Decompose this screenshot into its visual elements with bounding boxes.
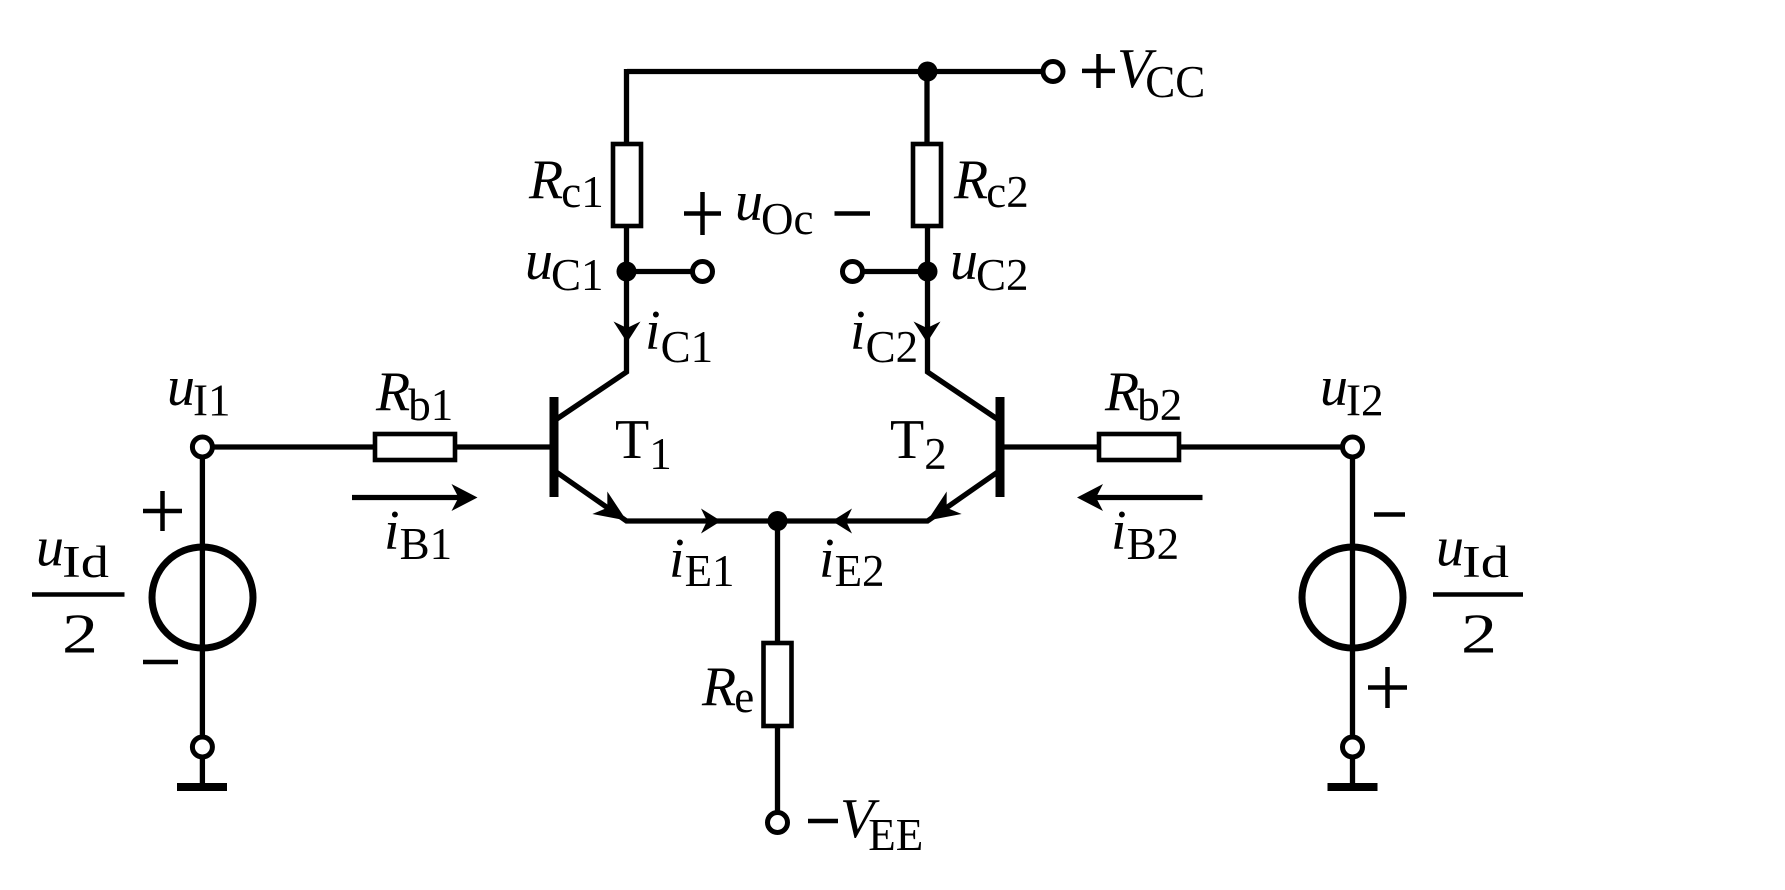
wire T2 emitter + right run — [778, 473, 998, 522]
terminal uC2 — [843, 262, 863, 282]
label - of uOc — [835, 211, 871, 216]
terminal uI1 — [192, 437, 212, 457]
terminal uI2 — [1343, 437, 1363, 457]
label + of uOc — [684, 211, 721, 216]
arrowheads — [452, 322, 1104, 534]
label - right source — [1374, 512, 1405, 517]
arrow T2 emitter — [920, 492, 962, 532]
wire uI1 to Rb1 — [214, 444, 375, 449]
wire uC2 stub — [864, 269, 927, 274]
label + right source — [1368, 685, 1407, 690]
plus/minus signs drawn as strokes — [32, 54, 1523, 821]
transistor T2 base bar — [996, 397, 1005, 497]
node uC1 junction dot — [617, 262, 637, 282]
wire collector T2 — [928, 272, 999, 420]
transistor T1 base bar — [550, 397, 559, 497]
terminal +VCC — [1043, 62, 1063, 82]
node VCC junction dot — [918, 62, 938, 82]
wire uC1 stub — [627, 269, 691, 274]
terminal -VEE — [768, 813, 788, 833]
wire Rc1 top lead — [624, 69, 629, 144]
wire top rail — [627, 69, 1041, 74]
resistor Rc2 — [913, 144, 941, 226]
terminal left source bottom — [192, 737, 212, 757]
fraction bar right uId/2 — [1433, 592, 1523, 597]
terminal uC1 — [693, 262, 713, 282]
wire Rc2 bottom lead — [925, 226, 930, 272]
svg-text:2: 2 — [62, 604, 98, 666]
node uC2 junction dot — [918, 262, 938, 282]
svg-text:2: 2 — [1461, 604, 1497, 666]
node emitter junction dot — [768, 511, 788, 531]
wire Re bottom lead — [775, 726, 780, 811]
arrow iE1 — [701, 509, 721, 534]
ground right — [1328, 783, 1378, 791]
label - of -VEE — [808, 819, 838, 824]
wire Rb2 to uI2 — [1180, 444, 1341, 449]
wire left source vertical — [200, 458, 205, 736]
wire T2 base lead — [1004, 444, 1099, 449]
terminal right source bottom — [1343, 737, 1363, 757]
arrow shaft iB2 — [1095, 495, 1203, 500]
wire right source vertical — [1350, 458, 1355, 736]
label + left source — [143, 509, 182, 514]
arrow iE2 — [832, 509, 852, 534]
wire collector T1 — [556, 272, 627, 420]
arrow shaft iB1 — [352, 495, 459, 500]
label - left source — [143, 660, 178, 665]
resistor Re — [764, 643, 792, 726]
ground left — [177, 783, 227, 791]
wire left ground lead — [200, 759, 205, 785]
source uId/2 left circle — [152, 547, 253, 648]
source uId/2 right circle — [1302, 547, 1403, 648]
wire T1 emitter + left run — [557, 473, 778, 522]
arrow T1 emitter — [592, 492, 634, 532]
resistor Rb1 — [375, 434, 455, 460]
label + of +VCC — [1082, 69, 1115, 74]
wire Rc2 top lead — [924, 72, 929, 145]
wire Re top lead — [775, 521, 780, 643]
fraction bar left uId/2 — [32, 592, 125, 597]
wire Rc1 bottom lead — [624, 226, 629, 272]
arrow iB2 — [1077, 484, 1103, 511]
wire right ground lead — [1350, 759, 1355, 785]
wire T1 base lead — [456, 444, 551, 449]
resistor Rb2 — [1099, 434, 1179, 460]
arrow iC1 — [614, 322, 641, 343]
resistor Rc1 — [613, 144, 641, 226]
arrow iC2 — [914, 322, 941, 343]
arrow iB1 — [452, 484, 478, 511]
